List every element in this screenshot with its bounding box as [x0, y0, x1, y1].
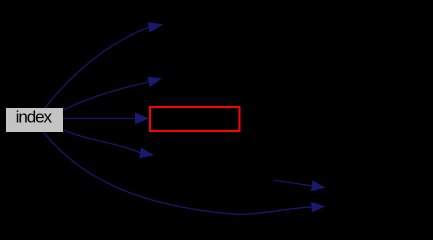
- svg-text:index: index: [16, 108, 53, 127]
